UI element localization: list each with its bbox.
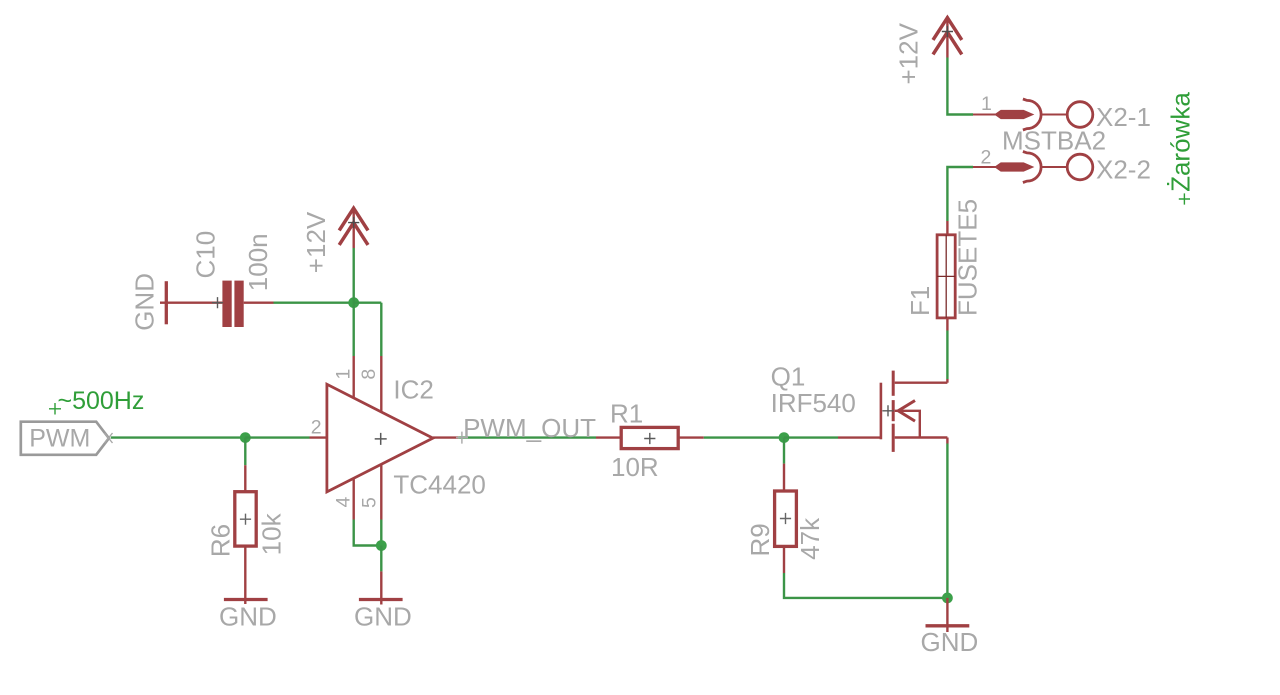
pin 5 stub of IC2 bbox=[380, 465, 382, 520]
svg-text:1: 1 bbox=[332, 369, 354, 380]
svg-text:IRF540: IRF540 bbox=[771, 388, 856, 418]
wire junction down to R9 bbox=[783, 438, 785, 464]
wire junction to IC pin2 bbox=[245, 436, 309, 438]
IC2 output pin stub bbox=[433, 436, 458, 438]
svg-text:GND: GND bbox=[219, 601, 277, 631]
svg-text:2: 2 bbox=[981, 147, 992, 169]
wire down to pin 8 bbox=[380, 303, 382, 356]
svg-text:MSTBA2: MSTBA2 bbox=[1002, 125, 1106, 155]
svg-text:FUSETE5: FUSETE5 bbox=[953, 199, 983, 316]
svg-text:GND: GND bbox=[130, 273, 160, 331]
node junction at gate bbox=[779, 432, 790, 443]
op-amp driver IC2 triangle bbox=[327, 375, 486, 500]
node junction at R6 top bbox=[240, 432, 251, 443]
wire C10 to +12V junction bbox=[274, 302, 354, 304]
svg-text:1: 1 bbox=[981, 93, 992, 115]
wire junction down bbox=[380, 546, 382, 572]
pin 4 stub of IC2 bbox=[353, 479, 355, 519]
svg-text:GND: GND bbox=[354, 601, 412, 631]
node junction at +12V bbox=[348, 297, 359, 308]
ground symbol left of C10 bbox=[130, 273, 168, 331]
svg-text:R1: R1 bbox=[610, 398, 643, 428]
resistor R1 left pin bbox=[596, 436, 621, 438]
source vertical wire bbox=[946, 438, 948, 444]
net label PWM_OUT bbox=[456, 413, 596, 444]
capacitor C10 bbox=[190, 231, 273, 327]
ground GND bottom right bbox=[921, 626, 979, 657]
svg-text:TC4420: TC4420 bbox=[393, 470, 486, 500]
svg-text:10R: 10R bbox=[611, 452, 659, 482]
GND pin under IC2 bbox=[380, 571, 382, 604]
wire junction to gate bbox=[784, 436, 838, 438]
svg-text:F1: F1 bbox=[905, 286, 935, 316]
wire R9 to bottom junction bbox=[784, 573, 947, 598]
pin 2 stub of IC2 bbox=[310, 436, 327, 438]
svg-text:47k: 47k bbox=[795, 517, 825, 560]
wire junction up to +12V arrow bbox=[353, 248, 355, 303]
connector pin X2-2 bbox=[973, 147, 1151, 185]
svg-text:4: 4 bbox=[333, 497, 355, 508]
svg-text:Q1: Q1 bbox=[771, 362, 806, 392]
svg-text:PWM: PWM bbox=[29, 424, 90, 452]
wire pin4 elbow to junction bbox=[354, 520, 382, 546]
resistor R9 top pin bbox=[783, 464, 785, 491]
svg-text:+12V: +12V bbox=[301, 211, 331, 273]
wire PWM to junction bbox=[111, 436, 246, 438]
resistor R9 bottom pin bbox=[783, 546, 785, 573]
GND pin bottom right bbox=[946, 598, 948, 632]
net label ~500Hz bbox=[49, 387, 144, 415]
svg-text:~500Hz: ~500Hz bbox=[58, 387, 145, 415]
resistor R1 bbox=[610, 398, 678, 482]
svg-text:PWM_OUT: PWM_OUT bbox=[463, 413, 596, 443]
svg-text:Żarówka: Żarówka bbox=[1165, 92, 1195, 192]
capacitor C10 right pin bbox=[244, 302, 274, 304]
svg-text:8: 8 bbox=[358, 369, 380, 380]
svg-text:R6: R6 bbox=[205, 524, 235, 557]
svg-text:+12V: +12V bbox=[894, 22, 924, 84]
wire PWM_OUT net bbox=[458, 436, 596, 438]
ground GND under R6 bbox=[219, 600, 277, 632]
pin 1 stub of IC2 bbox=[353, 356, 355, 398]
svg-text:C10: C10 bbox=[190, 231, 220, 279]
wire +12V down to X2-1 bbox=[947, 58, 973, 115]
resistor R6 bottom pin bbox=[244, 546, 246, 604]
svg-text:GND: GND bbox=[921, 627, 979, 657]
fuse F1 bottom pin bbox=[946, 318, 948, 331]
wire down to pin 1 bbox=[353, 303, 355, 356]
supply +12V symbol top right bbox=[894, 16, 962, 84]
connector PWM flag bbox=[21, 422, 113, 455]
svg-text:IC2: IC2 bbox=[393, 375, 433, 405]
capacitor C10 left pin bbox=[166, 302, 222, 304]
gate pin stub bbox=[838, 436, 880, 438]
wire junction down to R6 bbox=[244, 438, 246, 466]
pin 8 stub of IC2 bbox=[380, 356, 382, 412]
fuse F1 top pin bbox=[946, 221, 948, 235]
net label Zarowka bbox=[1165, 92, 1195, 205]
transistor Q1 bbox=[771, 362, 948, 452]
node junction bottom right bbox=[942, 593, 953, 604]
resistor R9 bbox=[745, 491, 825, 560]
fuse F1 bbox=[905, 199, 983, 318]
svg-text:100n: 100n bbox=[243, 233, 273, 291]
drain vertical wire bbox=[946, 379, 948, 383]
wire pin5 down bbox=[380, 520, 382, 546]
svg-text:R9: R9 bbox=[745, 523, 775, 556]
svg-text:10k: 10k bbox=[257, 512, 287, 555]
svg-text:5: 5 bbox=[359, 497, 381, 508]
resistor R6 top pin bbox=[244, 465, 246, 492]
resistor R1 right pin bbox=[678, 436, 704, 438]
ground GND under IC2 bbox=[354, 600, 412, 632]
wire R1 to junction bbox=[704, 436, 784, 438]
svg-text:X2-2: X2-2 bbox=[1096, 155, 1151, 185]
node junction under IC2 bbox=[376, 540, 387, 551]
wire fuse to X2-2 bbox=[947, 167, 973, 221]
wire junction to pin8 corner bbox=[354, 302, 382, 304]
svg-text:2: 2 bbox=[311, 416, 322, 438]
supply +12V symbol at IC bbox=[301, 207, 368, 273]
resistor R6 bbox=[205, 492, 286, 557]
connector pin X2-1 bbox=[973, 93, 1151, 132]
